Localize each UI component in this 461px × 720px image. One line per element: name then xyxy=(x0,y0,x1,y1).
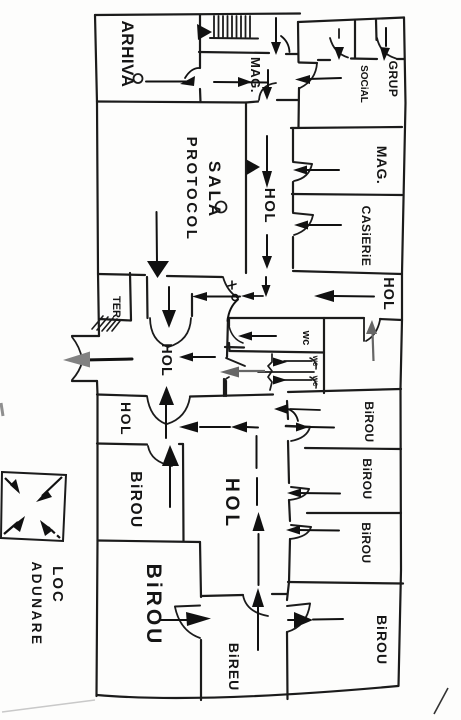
arrow exit entrance gray xyxy=(63,352,90,368)
door corridor-top arc xyxy=(259,83,276,100)
arrow corridor to doors left xyxy=(200,426,230,428)
arrow hall left from junction xyxy=(203,296,240,298)
wall corridor right segments xyxy=(292,128,294,161)
arrow corridor-top door down xyxy=(267,70,269,88)
arrow bottom-center birou up xyxy=(257,606,259,650)
wall ter bottom xyxy=(99,319,131,321)
arrow mag-to-grup xyxy=(308,78,341,79)
door wc arc xyxy=(229,326,243,343)
wall outer left lower xyxy=(97,381,98,696)
svg-text:SALA: SALA xyxy=(205,161,224,219)
wall lower wing top-left xyxy=(97,395,146,397)
small circle arhiva xyxy=(134,74,143,83)
compass arrow se xyxy=(48,527,60,538)
wall top rooms bottom segments xyxy=(318,59,330,61)
arrow arhiva exit xyxy=(146,81,188,83)
arrow casierie exit xyxy=(304,224,341,226)
door left birou2 arc xyxy=(175,607,200,638)
svg-text:wc: wc xyxy=(311,375,320,387)
gray arrows xyxy=(63,320,377,378)
door lower double arc right xyxy=(167,397,190,424)
arrow top room2 down xyxy=(385,28,387,46)
door entrance arc lower xyxy=(72,362,82,380)
svg-text:wc: wc xyxy=(311,355,320,367)
arrow stairs big triangle xyxy=(197,24,212,40)
arrow corridor down 3 xyxy=(265,277,267,286)
wall left birou1 top xyxy=(97,444,147,445)
wall outer left upper xyxy=(95,15,99,336)
svg-text:BiROU: BiROU xyxy=(374,615,390,665)
arrow top door down xyxy=(275,18,277,42)
wall arhiva bottom / sala protocol top xyxy=(97,102,246,103)
compass arrow ne xyxy=(42,477,62,496)
wall left birou2 right xyxy=(200,542,201,597)
arrow right corridor door gray xyxy=(366,320,377,334)
arrow up through lower doors xyxy=(165,404,167,438)
wall corridor left xyxy=(245,103,247,274)
door bottom-center arc xyxy=(243,595,268,616)
compass arrow nw xyxy=(5,478,14,487)
wall outer top-right block xyxy=(298,18,404,23)
arrow corridor down 1 xyxy=(266,136,268,172)
wall wc block top xyxy=(229,317,364,319)
door casierie leaf xyxy=(293,213,313,215)
arrows black xyxy=(84,18,390,650)
svg-text:GRUP: GRUP xyxy=(386,61,400,98)
arrow entrance shaft xyxy=(84,359,132,360)
door right birou3 arc xyxy=(290,527,311,539)
arrow hall doors down xyxy=(168,287,170,311)
wall lower wing top mid xyxy=(190,395,273,397)
wall right rooms divider2 xyxy=(307,512,401,514)
scan artifact left edge xyxy=(1,403,3,416)
arrow sala door down xyxy=(156,212,159,263)
small circle sala xyxy=(216,202,227,213)
wall outer bottom xyxy=(97,686,398,698)
door casierie arc xyxy=(294,215,313,235)
door mag-to-grup stub xyxy=(299,61,317,64)
wall left birous divider xyxy=(98,541,201,543)
stall door arcs xyxy=(310,358,316,369)
wall wc bottom xyxy=(230,351,324,353)
door right-corridor leaf xyxy=(363,318,365,341)
svg-text:PROTOCOL: PROTOCOL xyxy=(183,137,200,242)
svg-text:BiROU: BiROU xyxy=(359,522,373,563)
wall right corridor bottom right segment xyxy=(380,319,402,320)
arrow right corridor left xyxy=(333,295,374,298)
door hall upper double arc right xyxy=(168,318,191,347)
door top room2 arc xyxy=(377,38,396,59)
door entrance arc upper xyxy=(72,337,82,359)
wall wc block right xyxy=(323,318,325,393)
arrow hall left 2 xyxy=(189,356,215,358)
arrow sala to corridor right xyxy=(247,160,261,176)
wall right rooms divider3 xyxy=(288,582,403,584)
svg-text:ADUNARE: ADUNARE xyxy=(29,562,44,647)
door bottom-right leaf xyxy=(287,604,310,607)
wall bottom-center birou top segments xyxy=(201,595,243,596)
wall corridor top segments xyxy=(246,102,258,103)
junction arcs and marks xyxy=(228,300,239,322)
door right birou2 leaf xyxy=(291,487,309,489)
arrow mag-top left xyxy=(214,81,268,84)
svg-text:HOL: HOL xyxy=(380,277,396,311)
door sala-hall hinge arc xyxy=(223,277,238,298)
door right birou2 arc xyxy=(290,489,310,500)
wall sala bottom segments xyxy=(98,274,145,275)
arrow right birou3 out xyxy=(296,529,339,532)
wall outer top xyxy=(95,14,300,16)
wall left birou1 top right stub xyxy=(179,443,183,445)
arrow right birou1 leaf head xyxy=(296,423,309,432)
wall mag-right top xyxy=(291,127,402,128)
svg-text:ARHIVA: ARHIVA xyxy=(118,21,137,88)
svg-text:TER: TER xyxy=(110,296,122,318)
arrow top room1 down xyxy=(334,47,344,60)
door bottom-right arc xyxy=(287,604,310,632)
arrow stall 2 xyxy=(273,376,287,385)
wall right rooms divider1 xyxy=(305,448,401,449)
svg-text:BiROU: BiROU xyxy=(362,401,376,442)
wall right rooms left column xyxy=(287,401,288,419)
door right birou1 leaf xyxy=(286,426,310,427)
svg-text:SOCiAL: SOCiAL xyxy=(358,65,369,103)
wall entrance vestibule top xyxy=(72,335,99,337)
svg-text:CASiERiE: CASiERiE xyxy=(359,206,373,267)
arrow right birou1 out xyxy=(274,404,288,414)
door mag-right arc xyxy=(294,164,312,181)
wall stub above corridor xyxy=(223,379,225,396)
arrow right birou2 out xyxy=(297,492,340,495)
stairs treads xyxy=(214,16,250,37)
labels (rotated 90) xyxy=(29,21,400,692)
wall connector right of hall xyxy=(227,318,228,357)
arrow stall 1 xyxy=(273,358,287,367)
door left birou1 arc xyxy=(148,446,172,466)
door top room2 leaf xyxy=(385,28,387,38)
wall outer right xyxy=(399,18,406,687)
arrow lower corridor up 1 xyxy=(258,534,260,585)
door hall upper double arc left xyxy=(150,318,168,347)
assembly point square xyxy=(1,472,66,541)
wall casierie bottom / right corridor top xyxy=(293,271,402,274)
wall hall upper-left hinge xyxy=(146,277,149,318)
svg-text:BiREU: BiREU xyxy=(226,643,242,692)
door right birou1 arc xyxy=(291,427,310,441)
door right-corridor arc xyxy=(366,320,380,341)
stairs bottom line xyxy=(210,37,258,40)
svg-text:HOL: HOL xyxy=(261,188,278,224)
ter hatch xyxy=(92,316,120,331)
wall top rooms divider 2 xyxy=(375,20,378,40)
bottom-right tick xyxy=(434,688,448,714)
door connector arc xyxy=(224,377,229,382)
door top room1 arc xyxy=(330,38,348,58)
door lower double arc left xyxy=(147,396,166,424)
svg-text:MAG.: MAG. xyxy=(374,146,390,185)
arrow mag room exit xyxy=(302,169,339,171)
wall top rooms divider 1 xyxy=(354,21,356,58)
wall grup block left xyxy=(297,22,300,62)
arrow connector gray left xyxy=(220,367,239,378)
door connector leaf xyxy=(226,358,245,366)
door left birou2 leaf xyxy=(175,606,200,607)
svg-text:BiROU: BiROU xyxy=(360,458,374,499)
wall lower wing top right / stalls bottom xyxy=(288,389,401,392)
bottom-left faint line xyxy=(2,700,95,712)
svg-text:BiROU: BiROU xyxy=(127,471,144,528)
wall mag/casierie divider xyxy=(292,194,402,195)
door mag-right leaf xyxy=(293,162,312,164)
svg-text:HOL: HOL xyxy=(118,402,134,436)
arrow lower corridor up shaft + turn xyxy=(256,436,258,468)
wall wc left stubs xyxy=(228,318,230,326)
wall hall upper-right hinge xyxy=(191,294,193,316)
compass arrow sw xyxy=(4,522,18,534)
svg-text:HOL: HOL xyxy=(221,478,242,530)
arrow left birou2 exit xyxy=(160,619,188,621)
arrow bottom-right birou xyxy=(288,619,298,621)
wall arhiva right (with door+arrow gaps) xyxy=(199,15,201,68)
wall entrance vestibule bottom xyxy=(72,380,97,382)
arrow left birou1 up xyxy=(169,466,171,507)
wall stair lobby bottom xyxy=(199,52,269,53)
door right birou3 leaf xyxy=(291,525,311,527)
wall ter right xyxy=(130,273,131,320)
arrow wc exit xyxy=(251,335,276,337)
svg-text:LOC: LOC xyxy=(49,566,66,604)
door mag-to-grup arc xyxy=(300,63,317,88)
svg-text:wc: wc xyxy=(300,330,312,346)
svg-text:MAG.: MAG. xyxy=(248,57,263,93)
arrow corridor down 2 xyxy=(266,235,268,257)
svg-text:HOL: HOL xyxy=(158,343,174,377)
wall left birou1 right xyxy=(182,444,185,541)
door top room1 leaf xyxy=(338,29,340,38)
stall lines xyxy=(258,354,314,390)
svg-text:BiROU: BiROU xyxy=(142,564,165,647)
